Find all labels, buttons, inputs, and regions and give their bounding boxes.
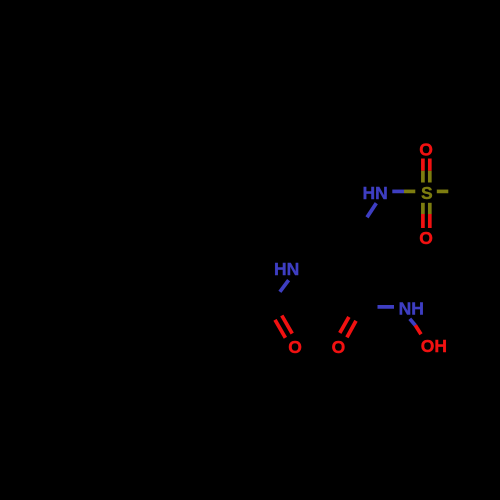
svg-text:HN: HN bbox=[363, 183, 388, 203]
svg-text:O: O bbox=[332, 337, 346, 357]
svg-text:O: O bbox=[288, 337, 302, 357]
svg-text:NH: NH bbox=[399, 299, 424, 319]
svg-text:OH: OH bbox=[421, 336, 447, 356]
svg-text:S: S bbox=[421, 183, 433, 203]
svg-text:HN: HN bbox=[274, 259, 299, 279]
svg-text:O: O bbox=[419, 139, 433, 159]
svg-text:O: O bbox=[419, 228, 433, 248]
